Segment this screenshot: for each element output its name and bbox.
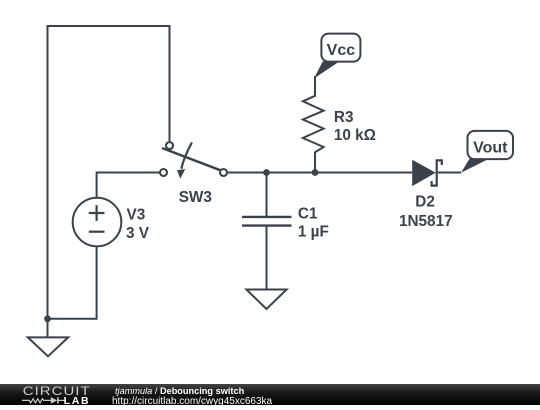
- svg-text:LAB: LAB: [64, 395, 91, 405]
- svg-text:D2: D2: [415, 194, 435, 211]
- svg-text:V3: V3: [127, 206, 146, 223]
- svg-text:R3: R3: [334, 109, 354, 126]
- svg-text:3 V: 3 V: [126, 225, 150, 242]
- svg-text:SW3: SW3: [179, 189, 212, 206]
- svg-text:1N5817: 1N5817: [399, 213, 453, 230]
- svg-text:C1: C1: [298, 206, 318, 223]
- svg-text:10 kΩ: 10 kΩ: [334, 127, 376, 144]
- svg-text:Vout: Vout: [473, 140, 508, 157]
- svg-text:1 µF: 1 µF: [298, 223, 329, 240]
- svg-text:Vcc: Vcc: [327, 42, 356, 59]
